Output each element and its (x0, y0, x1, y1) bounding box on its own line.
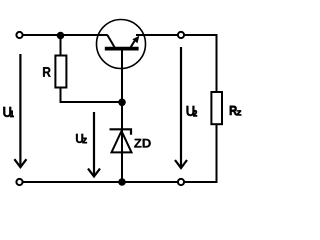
transistor Q1 base bar (105, 47, 139, 51)
terminal bottom-right (178, 179, 184, 185)
arrow Uz head (88, 169, 100, 177)
wire top rail right from emitter to U2 terminal (136, 34, 178, 36)
arrow U2 line (180, 47, 182, 167)
arrow U2 head (175, 160, 187, 168)
label Rz (230, 106, 237, 115)
wire top rail left (23, 34, 108, 36)
wire bottom rail left (23, 181, 178, 183)
wire resistor R top (60, 36, 62, 57)
wire Rz bottom to bottom rail (184, 124, 216, 182)
zener diode ZD anode triangle (112, 131, 132, 152)
transistor Q1 emitter arrowhead (132, 36, 139, 44)
terminal top-right (178, 32, 184, 38)
arrow Uz line (93, 112, 95, 175)
transistor Q1 body circle (97, 20, 146, 69)
wire top rail to Rz branch (184, 35, 216, 93)
transistor Q1 base lead (121, 50, 123, 103)
terminal bottom-left (16, 179, 22, 185)
junction node base (118, 99, 126, 107)
wire resistor R bottom to base node (61, 87, 123, 102)
terminal top-left (16, 32, 22, 38)
label Uz (76, 134, 83, 143)
label U1 (3, 107, 11, 117)
label U2 (186, 106, 194, 116)
label ZD (134, 139, 141, 148)
junction node bottom rail (118, 178, 126, 186)
label R (43, 67, 51, 77)
arrow U1 head (14, 159, 26, 167)
zener diode ZD lead (121, 102, 123, 183)
arrow U1 line (19, 54, 21, 166)
transistor Q1 collector lead (108, 35, 115, 47)
transistor Q1 emitter lead (131, 39, 136, 48)
junction node top rail (57, 32, 65, 40)
zener diode ZD cathode bar (110, 129, 132, 135)
resistor R (55, 56, 66, 88)
resistor Rz (211, 92, 222, 124)
